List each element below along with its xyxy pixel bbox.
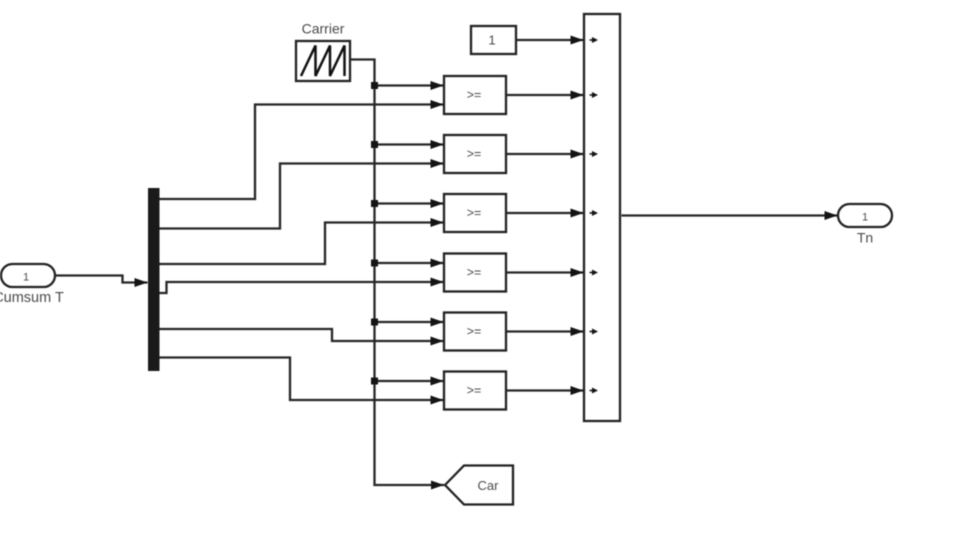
wire demux out2 to relational R2 lower input	[160, 164, 444, 229]
svg-text:>=: >=	[467, 147, 482, 161]
svg-text:1: 1	[488, 33, 495, 48]
wire R6 output to mux input 7	[506, 389, 584, 391]
wire carrier branch to R4 upper input	[375, 262, 444, 264]
repeating sequence source "Carrier"	[296, 21, 350, 82]
svg-text:>=: >=	[467, 88, 482, 102]
svg-text:>=: >=	[467, 266, 482, 280]
wire demux out1 to relational R1 lower input	[160, 105, 444, 200]
svg-text:Tn: Tn	[857, 230, 873, 246]
wire Carrier output trunk down to goto tag	[350, 60, 444, 486]
goto tag "Car"	[445, 466, 513, 505]
wire carrier branch to R5 upper input	[375, 321, 444, 323]
wire demux out4 to relational R4 lower input	[160, 282, 444, 293]
junction dot at carrier/R1 branch	[371, 82, 378, 89]
wire constant to mux input 1	[516, 39, 584, 41]
wire R4 output to mux input 5	[506, 271, 584, 273]
junction dot at carrier/R3 branch	[371, 200, 378, 207]
demux D1 (black bar)	[148, 188, 160, 371]
relational operator R2 ">="	[444, 135, 506, 173]
wire carrier branch to R3 upper input	[375, 202, 444, 204]
svg-text:>=: >=	[467, 325, 482, 339]
wire carrier branch to R2 upper input	[375, 143, 444, 145]
wire R5 output to mux input 6	[506, 330, 584, 332]
svg-text:1: 1	[862, 212, 868, 224]
wire demux out3 to relational R3 lower input	[160, 223, 444, 265]
relational operator R5 ">="	[444, 313, 506, 351]
wire demux out6 to relational R6 lower input	[160, 358, 444, 401]
constant C1 value 1	[471, 26, 516, 54]
junction dot at carrier/R5 branch	[371, 319, 378, 326]
wire carrier branch to R6 upper input	[375, 380, 444, 382]
wire demux out5 to relational R5 lower input	[160, 329, 444, 341]
relational operator R4 ">="	[444, 254, 506, 292]
wire R3 output to mux input 4	[506, 212, 584, 214]
svg-text:Car: Car	[478, 478, 500, 493]
wire R2 output to mux input 3	[506, 153, 584, 155]
relational operator R3 ">="	[444, 194, 506, 232]
svg-text:Cumsum T: Cumsum T	[0, 290, 64, 306]
relational operator R1 ">="	[444, 76, 506, 114]
wire R1 output to mux input 2	[506, 94, 584, 96]
input port In1 "Cumsum T"	[0, 264, 64, 306]
junction dot at carrier/R2 branch	[371, 141, 378, 148]
wire input port to demux	[55, 276, 148, 283]
junction dot at carrier/R4 branch	[371, 260, 378, 267]
output port Out1 "Tn"	[838, 204, 892, 246]
relational operator R6 ">="	[444, 372, 506, 410]
svg-text:>=: >=	[467, 384, 482, 398]
svg-text:1: 1	[23, 272, 29, 284]
mux M1	[584, 14, 620, 421]
wire carrier branch to R1 upper input	[375, 84, 444, 86]
wire mux output to output port	[622, 214, 838, 216]
junction dot at carrier/R6 branch	[371, 378, 378, 385]
svg-text:>=: >=	[467, 206, 482, 220]
svg-text:Carrier: Carrier	[302, 21, 345, 37]
